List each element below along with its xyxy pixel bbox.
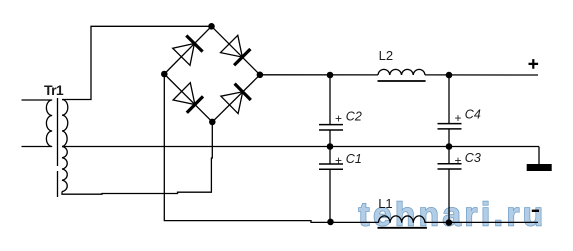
- wire: centre-tap rail (0V) from secondary to ground: [62, 146, 539, 148]
- node: C4/C3 on 0V rail: [446, 143, 453, 150]
- svg-text:C3: C3: [465, 151, 481, 165]
- inductor L1 (negative rail filter choke): [378, 216, 427, 228]
- terminal label + (positive output): [529, 59, 539, 69]
- transformer Tr1 secondary upper winding (3 loops): [62, 100, 68, 147]
- capacitor C4 (between + rail and 0V): [438, 75, 462, 147]
- svg-text:+: +: [335, 154, 342, 168]
- node: bridge top junction: [208, 23, 215, 30]
- wire: bridge left node (DC-) down to negative rail: [164, 74, 538, 222]
- ground terminal (0V output, chassis bar): [527, 147, 552, 172]
- label +C3: [455, 151, 481, 168]
- svg-text:tehnari.ru: tehnari.ru: [359, 196, 547, 233]
- svg-text:L2: L2: [379, 48, 393, 63]
- node: C3 bottom on - rail: [446, 219, 453, 226]
- diode VD2 (bridge top-right, anode at top node, cathode at right node): [212, 26, 260, 75]
- terminal label - (negative output): [532, 210, 539, 212]
- transformer Tr1 secondary lower winding (4 loops): [62, 147, 67, 192]
- watermark tehnari.ru: [359, 196, 547, 233]
- label L2: [379, 48, 393, 63]
- inductor L2 (positive rail filter choke): [378, 69, 426, 81]
- svg-text:+: +: [335, 111, 342, 125]
- svg-text:C1: C1: [346, 152, 362, 166]
- label +C4: [455, 107, 481, 125]
- label Tr1: [44, 82, 64, 98]
- svg-text:+: +: [455, 153, 462, 167]
- svg-text:C4: C4: [465, 107, 481, 121]
- svg-text:C2: C2: [346, 110, 362, 124]
- node: C2 top on + rail: [327, 72, 334, 79]
- label L1: [378, 196, 392, 211]
- diode VD1 (bridge top-left, anode at left node, cathode at top node): [164, 26, 211, 74]
- wire: bridge right node (DC+) to positive rail: [260, 74, 538, 76]
- svg-text:Tr1: Tr1: [44, 82, 64, 98]
- label +C1: [335, 152, 362, 168]
- node: C4 top on + rail: [446, 72, 453, 79]
- svg-text:+: +: [455, 111, 462, 125]
- node: bridge left junction: [161, 71, 168, 78]
- node: C2/C1 on 0V rail: [327, 143, 334, 150]
- capacitor C3 (between 0V and - rail): [438, 147, 462, 223]
- transformer Tr1 core (dashed line): [57, 98, 59, 197]
- node: C1 bottom on - rail: [327, 219, 334, 226]
- diode VD3 (bridge bottom-left, anode at left node, cathode at bottom node): [164, 74, 212, 122]
- node: bridge bottom junction: [209, 119, 216, 126]
- wire: secondary bottom terminal across to bridge bottom node: [62, 122, 212, 194]
- label +C2: [335, 110, 362, 126]
- wire: secondary top terminal up and across to bridge top node: [62, 26, 212, 99]
- node: bridge right junction: [257, 72, 264, 79]
- capacitor C2 (between + rail and 0V): [319, 75, 343, 147]
- diode VD4 (bridge bottom-right, anode at bottom node, cathode at right node): [212, 75, 260, 122]
- capacitor C1 (between 0V and - rail): [319, 147, 343, 223]
- transformer Tr1 primary winding (left, 3 loops): [22, 100, 53, 147]
